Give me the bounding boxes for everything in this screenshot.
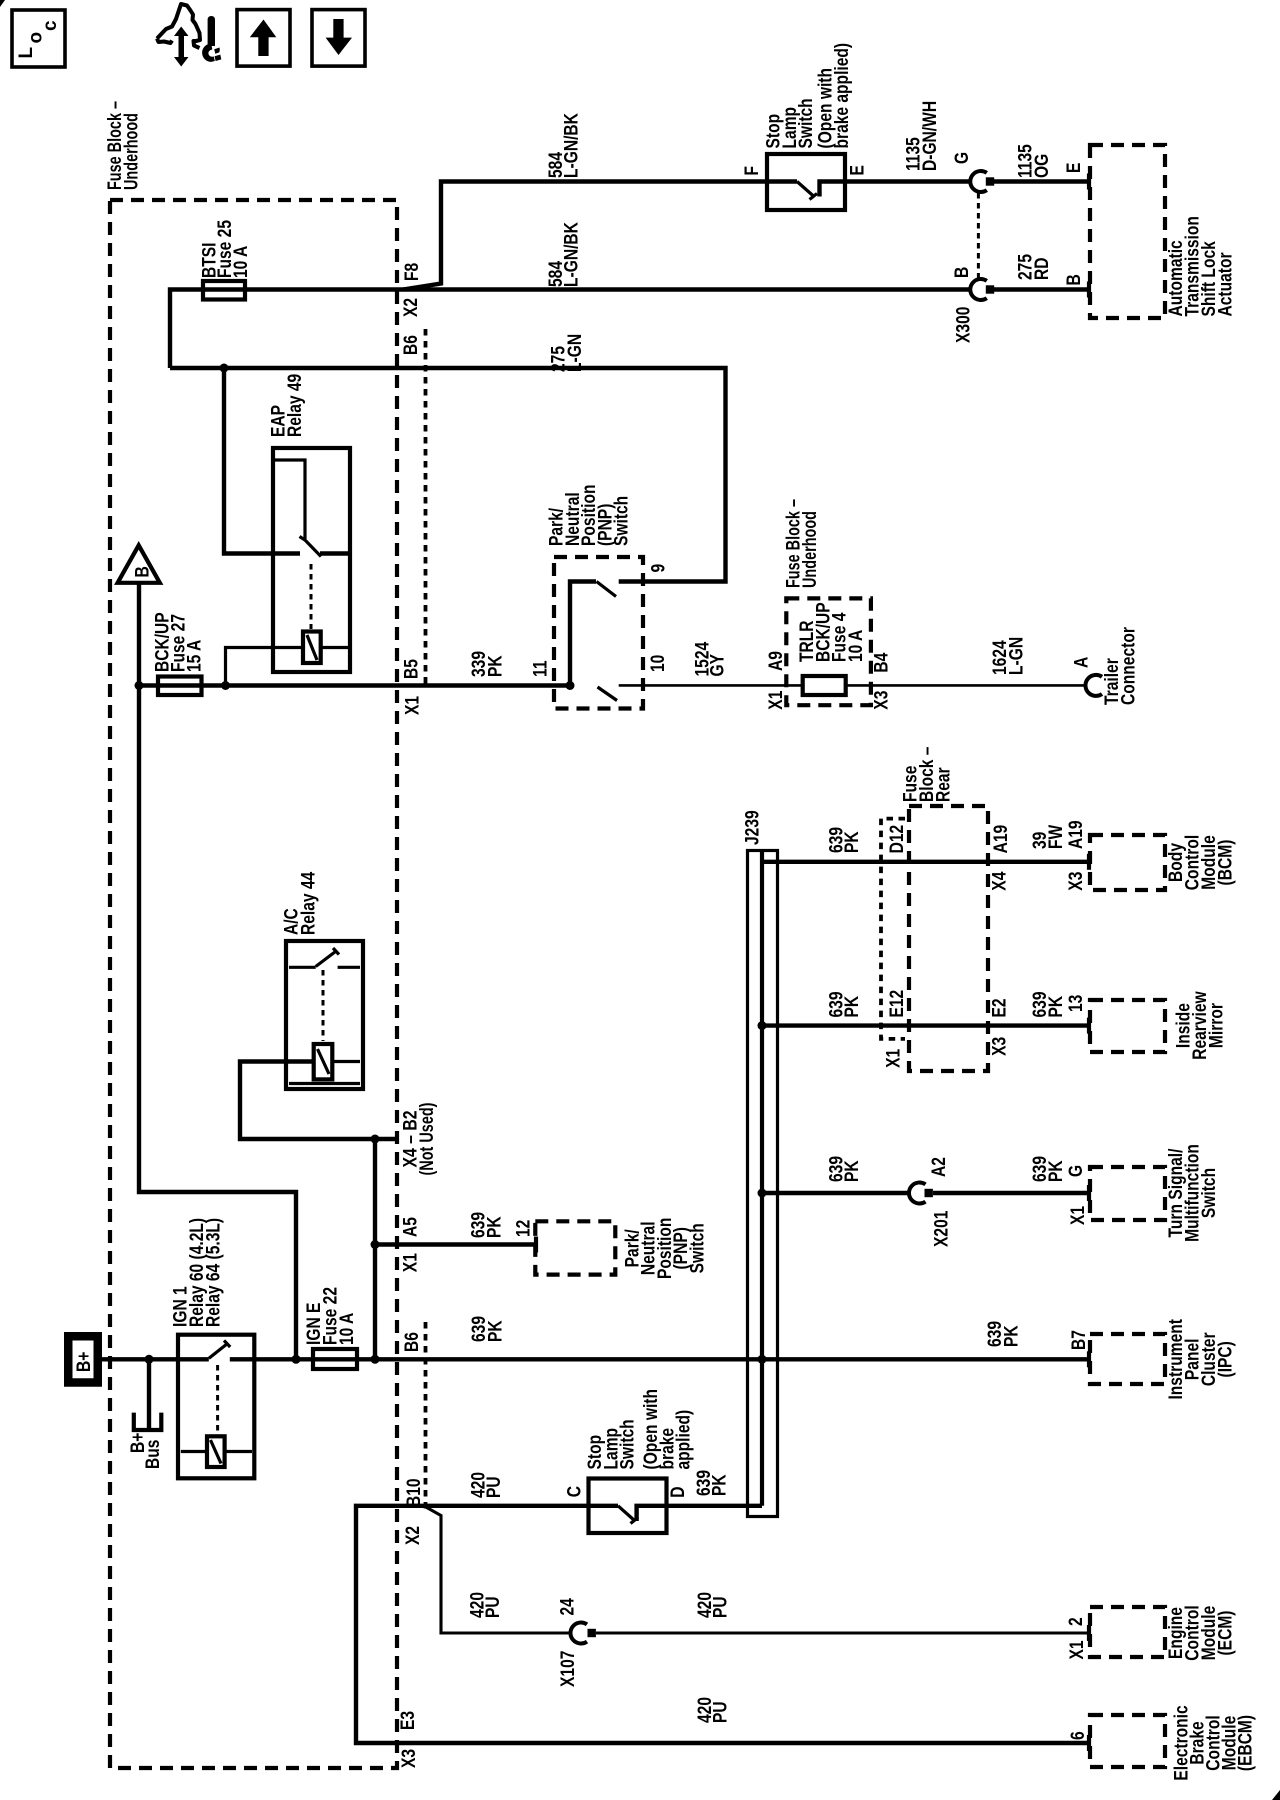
svg-text:A19: A19 — [1066, 820, 1087, 849]
svg-text:X3: X3 — [1066, 872, 1087, 891]
adjust (hand + wrench) icon — [157, 4, 200, 48]
svg-text:Underhood: Underhood — [122, 113, 143, 190]
svg-text:GY: GY — [708, 654, 729, 677]
svg-text:X1: X1 — [884, 1048, 905, 1067]
wire 1624 L-GN — [846, 684, 1086, 687]
wire 639 PK main (IGN E fuse 22 output to IPC) — [230, 1357, 1090, 1361]
svg-text:PK: PK — [842, 831, 863, 853]
svg-text:A2: A2 — [929, 1157, 950, 1177]
wire 639 PK to PNP pin 12 — [375, 1242, 535, 1246]
svg-text:X1: X1 — [403, 696, 424, 715]
junction (639 PK to PNP pin 12) — [371, 1240, 380, 1249]
junction (coil to 339 PK wire) — [221, 681, 230, 690]
svg-text:PK: PK — [842, 1160, 863, 1182]
body control module box — [1090, 835, 1165, 890]
turn signal / multifunction switch box — [1090, 1167, 1165, 1220]
svg-text:Relay 49: Relay 49 — [285, 374, 306, 437]
svg-text:15 A: 15 A — [185, 639, 206, 672]
wire 639 PK to turn signal switch — [762, 1191, 1090, 1195]
connector X201 — [909, 1182, 926, 1203]
svg-text:X1: X1 — [1068, 1206, 1089, 1225]
svg-text:J239: J239 — [742, 810, 763, 845]
X300 G-B dashed link — [977, 193, 980, 278]
svg-text:Mirror: Mirror — [1207, 1003, 1228, 1048]
scroll up icon box — [237, 10, 290, 67]
svg-text:PK: PK — [486, 655, 507, 677]
svg-text:X107: X107 — [558, 1651, 579, 1687]
IGN 1 relay coil — [207, 1436, 225, 1467]
stop lamp switch (upper) — [767, 154, 845, 210]
connector X2/X1 dotted line (upper) — [424, 329, 428, 686]
svg-text:A19: A19 — [991, 825, 1012, 854]
svg-text:D: D — [668, 1487, 689, 1498]
svg-text:Bus: Bus — [143, 1440, 164, 1469]
svg-text:B: B — [133, 566, 154, 577]
svg-text:Relay 64 (5.3L): Relay 64 (5.3L) — [204, 1218, 225, 1327]
svg-text:G: G — [1066, 1165, 1087, 1177]
svg-text:B7: B7 — [1069, 1330, 1090, 1350]
EAP relay stationary contact — [320, 551, 348, 555]
B+ reference triangle — [118, 545, 160, 583]
svg-text:PK: PK — [842, 996, 863, 1018]
wire B+ bus drop — [147, 1359, 151, 1428]
instrument panel cluster box — [1090, 1334, 1165, 1384]
svg-text:Switch: Switch — [688, 1223, 709, 1273]
wire 1524 GY — [645, 684, 803, 687]
svg-text:Rear: Rear — [934, 767, 955, 802]
svg-text:10 A: 10 A — [337, 1312, 358, 1345]
svg-text:PK: PK — [1002, 1325, 1023, 1347]
svg-text:OG: OG — [1032, 154, 1053, 178]
B+ feed box — [68, 1336, 98, 1382]
page corner mark bottom-right — [1272, 1790, 1280, 1800]
svg-text:c: c — [40, 20, 61, 31]
fuse TRLR BCK/UP Fuse 4 10 A — [803, 676, 846, 695]
PNP switch contact (pin 9) — [619, 579, 645, 583]
IGN 1 Relay 60 (4.2L) Relay 64 (5.3L) — [178, 1335, 254, 1479]
svg-text:B4: B4 — [871, 652, 892, 672]
wire 1135 D-GN/WH — [845, 179, 969, 183]
svg-text:B6: B6 — [402, 1332, 423, 1352]
svg-text:A: A — [1072, 656, 1093, 668]
svg-text:B+: B+ — [74, 1352, 95, 1372]
svg-text:L-GN: L-GN — [1006, 637, 1027, 675]
PNP switch blade (pin 9) — [597, 582, 617, 597]
connector X1 dotted outline (rear fuse block) — [881, 819, 905, 1039]
inside rearview mirror box — [1090, 1000, 1165, 1052]
LOC icon box — [12, 10, 65, 67]
svg-text:X3: X3 — [871, 691, 892, 710]
junction (A/C feed to ignition trunk) — [371, 1135, 380, 1144]
svg-text:X201: X201 — [932, 1210, 953, 1247]
wire B+ feed — [101, 1357, 209, 1361]
park/neutral position switch (pin 12) box — [535, 1221, 615, 1274]
trailer connector symbol — [1085, 675, 1102, 696]
svg-text:10 A: 10 A — [846, 629, 867, 662]
fuse BCK/UP Fuse 27 15 A — [158, 677, 202, 696]
A/C relay contact line — [289, 966, 360, 969]
A/C Relay 44 — [286, 941, 363, 1089]
svg-text:11: 11 — [531, 660, 552, 677]
engine control module box — [1090, 1607, 1165, 1657]
wire 639 PK to mirror — [762, 1023, 1090, 1027]
junction (bus, mirror wire) — [758, 1021, 767, 1030]
svg-text:10 A: 10 A — [231, 245, 252, 278]
wire A/C relay coil feed — [240, 1062, 399, 1140]
svg-text:PU: PU — [711, 1701, 732, 1723]
svg-text:B10: B10 — [404, 1478, 425, 1507]
J239 splice bus line — [760, 851, 764, 1506]
svg-text:Switch: Switch — [612, 496, 633, 546]
svg-text:9: 9 — [649, 564, 670, 573]
stop lamp switch (lower) — [589, 1479, 667, 1534]
electronic brake control module box — [1090, 1715, 1165, 1767]
svg-text:PK: PK — [484, 1216, 505, 1238]
wire ignition trunk vertical — [373, 1139, 377, 1359]
PNP switch common arm — [570, 582, 596, 686]
connector X2 dotted line (lower) — [424, 1322, 428, 1509]
svg-text:D-GN/WH: D-GN/WH — [920, 101, 941, 171]
fuse block underhood dashed box — [110, 200, 397, 1768]
svg-text:B: B — [1064, 274, 1085, 285]
svg-text:PU: PU — [483, 1596, 504, 1618]
EAP relay actuation link — [310, 564, 313, 629]
svg-text:12: 12 — [513, 1220, 534, 1237]
svg-text:PU: PU — [484, 1476, 505, 1498]
svg-text:F8: F8 — [402, 263, 423, 281]
svg-text:X2: X2 — [403, 1526, 424, 1545]
page corner mark top-left — [0, 0, 5, 7]
scroll down icon box — [312, 10, 365, 67]
junction (B+ bus tap) — [145, 1355, 154, 1364]
svg-text:A5: A5 — [401, 1217, 422, 1237]
svg-text:E: E — [848, 165, 869, 175]
svg-text:X2: X2 — [401, 298, 422, 317]
svg-text:(EBCM): (EBCM) — [1236, 1715, 1257, 1771]
wire 275 L-GN — [170, 368, 726, 582]
svg-text:brake applied): brake applied) — [832, 43, 853, 149]
EAP relay switch common arm — [275, 460, 305, 539]
wire 584 L-GN/BK upper branch — [403, 182, 767, 290]
svg-text:L-GN/BK: L-GN/BK — [562, 222, 583, 287]
svg-text:RD: RD — [1032, 258, 1053, 281]
wire 420 PU trunk (EBCM to B10) — [356, 1506, 1090, 1743]
svg-text:E3: E3 — [398, 1711, 419, 1730]
junction (stem to 339 PK) — [135, 681, 144, 690]
svg-text:10: 10 — [648, 655, 669, 672]
svg-text:13: 13 — [1066, 995, 1087, 1012]
svg-text:X4: X4 — [990, 871, 1011, 890]
IGN 1 relay switch blade — [209, 1341, 230, 1359]
junction (ignition trunk) — [371, 1355, 380, 1364]
wire (triangle stem) — [137, 583, 141, 686]
junction (bus, IPC wire) — [758, 1355, 767, 1364]
wire 420 PU branch to X107 — [426, 1507, 571, 1633]
svg-text:6: 6 — [1068, 1731, 1089, 1740]
svg-text:X1: X1 — [1067, 1640, 1088, 1659]
svg-text:G: G — [952, 152, 973, 164]
svg-text:A9: A9 — [766, 651, 787, 671]
svg-text:B: B — [952, 267, 973, 278]
automatic transmission shift lock actuator box — [1090, 145, 1165, 318]
junction (275 L-GN to EAP relay) — [220, 364, 229, 373]
A/C relay actuation link — [322, 970, 325, 1041]
svg-text:applied): applied) — [674, 1410, 695, 1470]
wire EAP relay feed (275 L-GN tap) — [224, 368, 300, 554]
svg-text:PK: PK — [1046, 1160, 1067, 1182]
A/C relay coil — [314, 1044, 333, 1079]
svg-text:Underhood: Underhood — [800, 511, 821, 588]
svg-text:X1: X1 — [766, 690, 787, 709]
B+ bus bar symbol — [134, 1413, 162, 1430]
EAP relay coil — [303, 632, 321, 664]
fuse IGN E Fuse 22 10 A — [313, 1349, 357, 1369]
svg-text:(ECM): (ECM) — [1216, 1611, 1237, 1656]
wire EAP relay coil to 339 PK — [226, 648, 304, 686]
svg-text:X1: X1 — [401, 1253, 422, 1272]
svg-text:Switch: Switch — [618, 1419, 639, 1469]
svg-text:24: 24 — [558, 1598, 579, 1616]
stop lamp switch blade (lower) — [618, 1506, 638, 1524]
svg-text:E: E — [1064, 163, 1085, 173]
svg-text:L: L — [16, 47, 37, 59]
svg-text:FW: FW — [1046, 825, 1067, 849]
IGN 1 relay actuation link — [216, 1365, 219, 1434]
wire 420 PU (X107 to ECM) — [596, 1631, 1090, 1634]
svg-text:PK: PK — [486, 1320, 507, 1342]
fuse block underhood (TRLR) dashed box — [786, 598, 871, 705]
svg-text:B5: B5 — [402, 659, 423, 679]
connector X300 pin G — [970, 171, 987, 192]
svg-text:(Not Used): (Not Used) — [417, 1103, 438, 1176]
svg-text:PU: PU — [711, 1596, 732, 1618]
svg-text:D12: D12 — [887, 825, 908, 854]
svg-text:L-GN/BK: L-GN/BK — [562, 113, 583, 178]
PNP switch blade (pin 10) — [598, 687, 618, 701]
fuse block rear dashed box — [909, 806, 988, 1071]
svg-text:E2: E2 — [990, 998, 1011, 1017]
connector X107 — [570, 1623, 587, 1644]
A/C relay switch blade — [316, 948, 339, 967]
svg-text:Relay 44: Relay 44 — [299, 871, 320, 935]
svg-text:E12: E12 — [887, 990, 908, 1018]
svg-text:C: C — [565, 1486, 586, 1498]
wire 639 PK (stop lamp to J239) — [667, 1504, 763, 1508]
svg-text:o: o — [26, 32, 47, 44]
PNP switch contact (pin 10) — [619, 684, 645, 687]
J239 splice pack — [748, 851, 778, 1517]
wire 639 PK to BCM — [762, 860, 1090, 864]
junction (bus, turn signal wire) — [758, 1189, 767, 1198]
svg-text:(BCM): (BCM) — [1216, 840, 1237, 886]
svg-text:X3: X3 — [399, 1749, 420, 1768]
svg-text:PK: PK — [1046, 996, 1067, 1018]
svg-text:Switch: Switch — [1199, 1168, 1220, 1218]
svg-text:2: 2 — [1066, 1617, 1087, 1626]
park/neutral position switch (PNP) box — [554, 557, 643, 709]
svg-text:Actuator: Actuator — [1216, 252, 1237, 317]
svg-text:X300: X300 — [954, 307, 975, 343]
svg-text:X3: X3 — [990, 1037, 1011, 1056]
svg-text:PK: PK — [710, 1474, 731, 1496]
fuse BTSI Fuse 25 10 A — [203, 281, 245, 300]
svg-text:Connector: Connector — [1119, 627, 1140, 705]
wire 584 L-GN/BK lower (fuse 25 to X300 B) — [170, 290, 969, 369]
stop lamp switch blade (upper) — [797, 182, 817, 200]
wire EAP/BCKUP feed from B+ (via relay area) — [139, 686, 296, 1360]
junction (relay output) — [292, 1355, 301, 1364]
svg-text:B6: B6 — [401, 335, 422, 355]
EAP relay switch blade — [300, 537, 322, 557]
svg-text:Switch: Switch — [796, 98, 817, 148]
svg-text:L-GN: L-GN — [565, 334, 586, 372]
connector X300 pin B — [970, 279, 987, 300]
wire 339 PK — [139, 683, 574, 687]
svg-text:F: F — [742, 166, 763, 176]
svg-text:(IPC): (IPC) — [1216, 1341, 1237, 1377]
EAP Relay 49 — [273, 448, 350, 672]
